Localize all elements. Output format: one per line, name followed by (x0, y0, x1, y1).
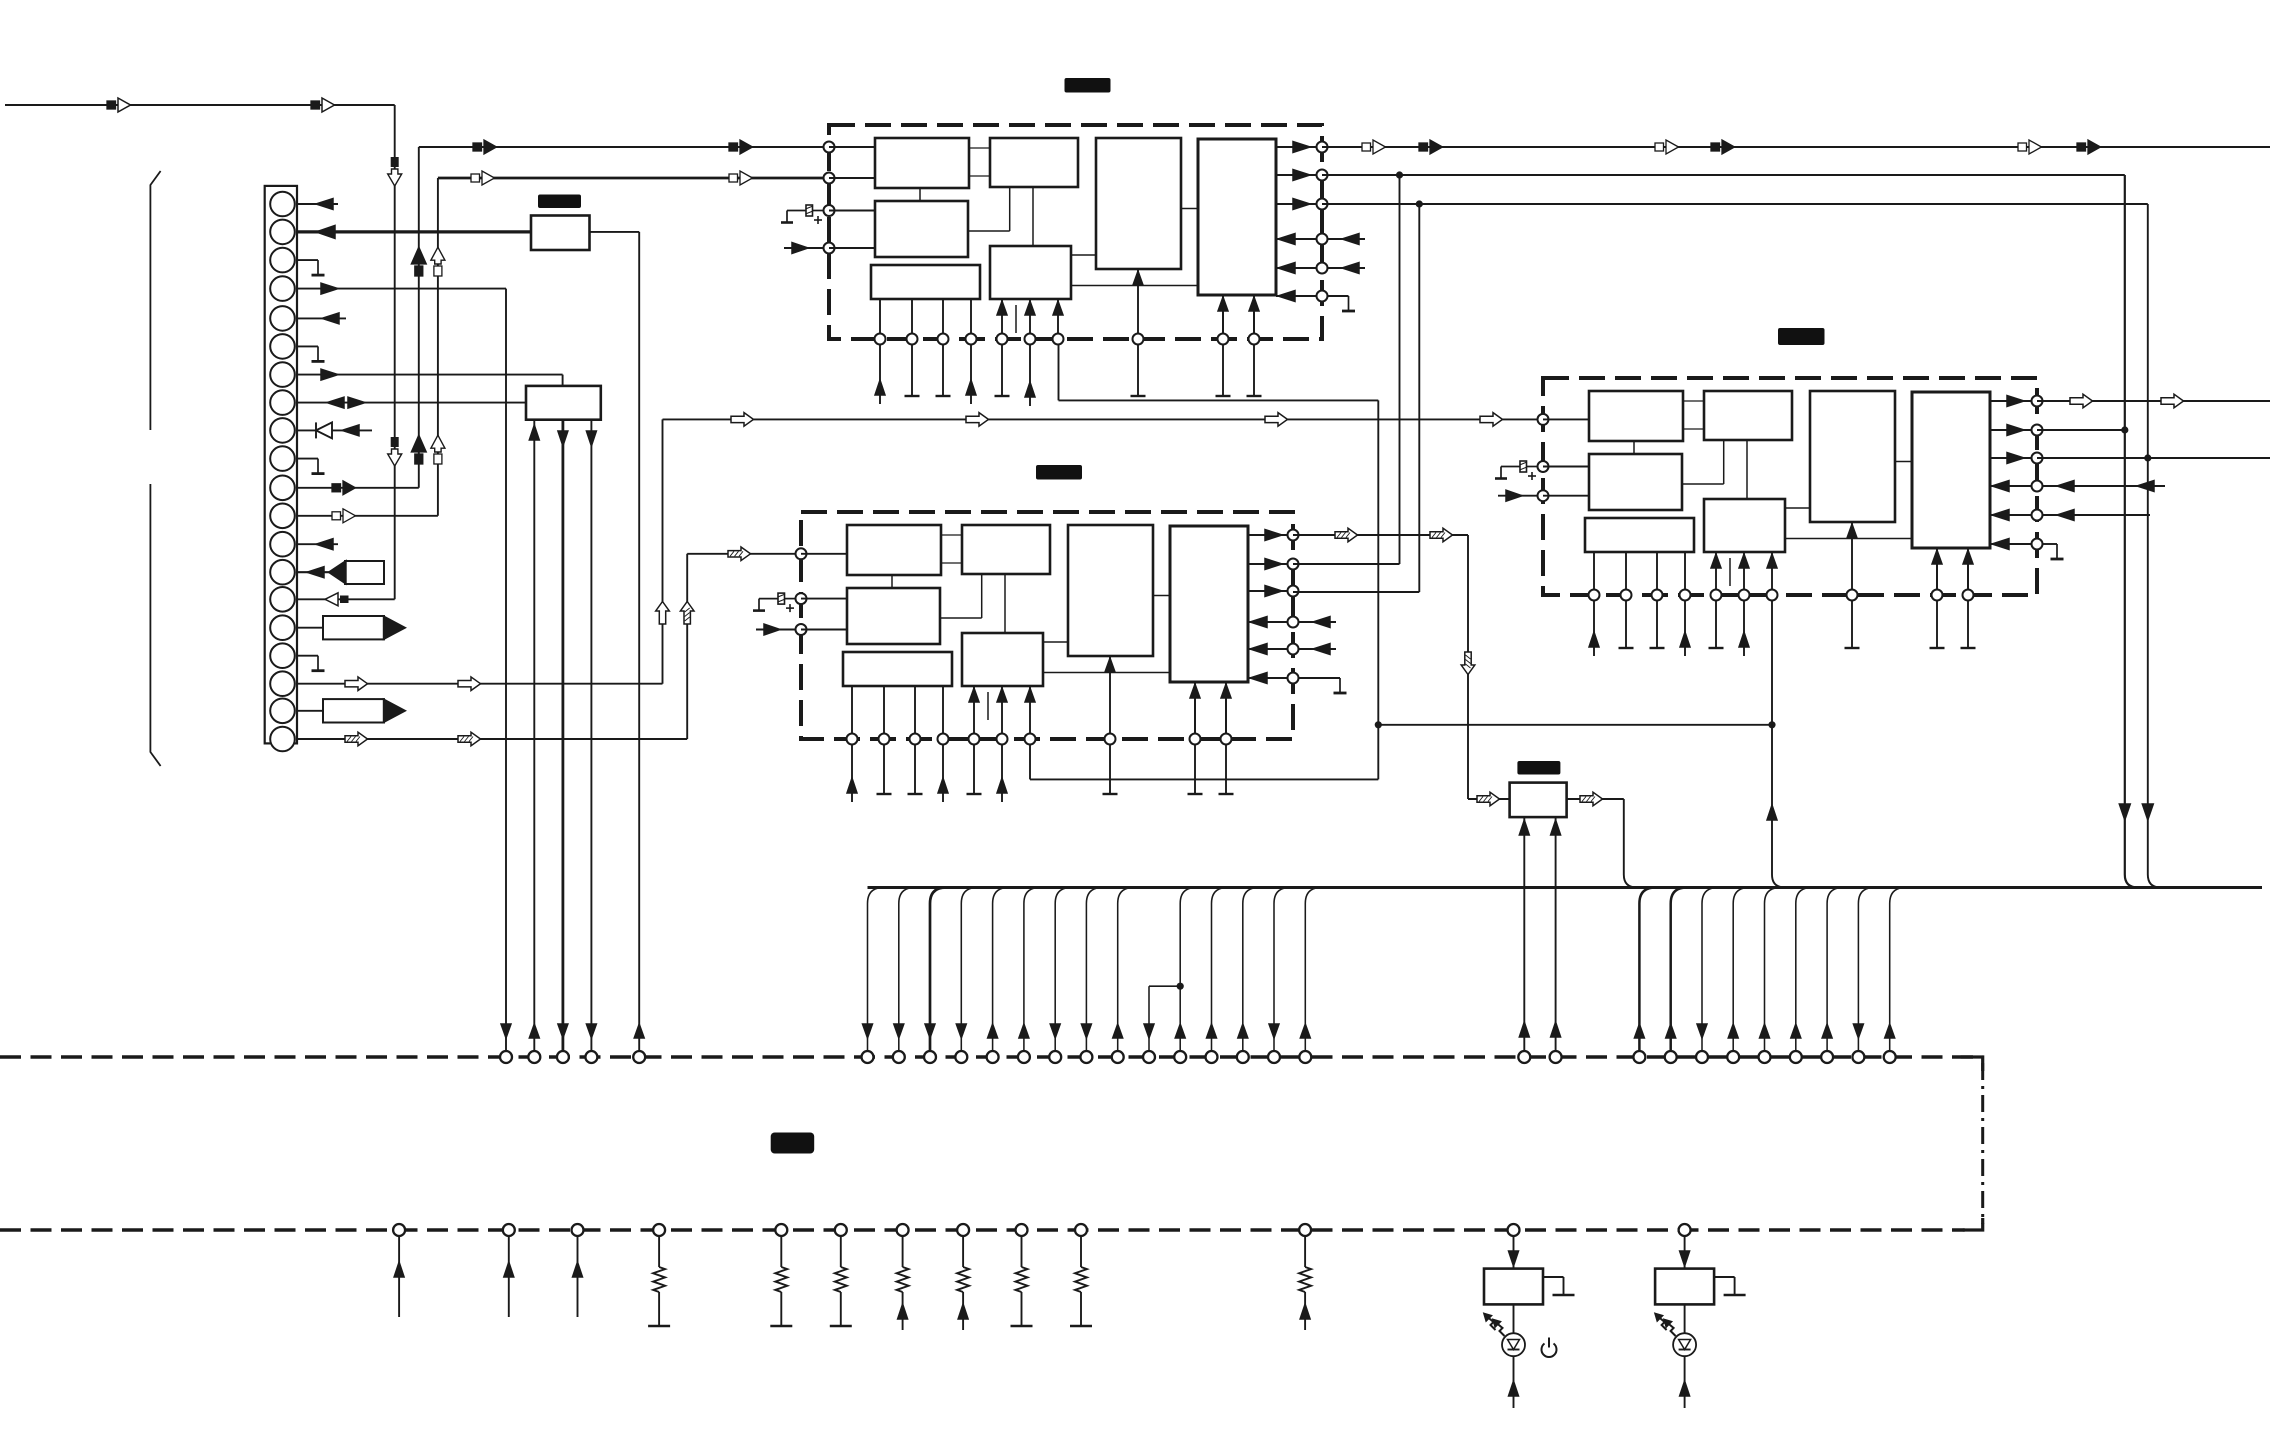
U2 bottom pin feeds (852, 656, 1231, 739)
U3 bottom stubs (1589, 600, 1976, 656)
U3 right pin circles and arrows (1990, 396, 2043, 550)
U3 label bar (1778, 328, 1825, 345)
U1 block A (input amp) (875, 138, 969, 188)
connector CN1 body (265, 186, 297, 744)
bus2 connector circles (393, 1224, 1691, 1236)
U1 block F (990, 246, 1071, 299)
pin14 display-out symbol (296, 561, 384, 585)
board bus2 dashed line (0, 1228, 1965, 1231)
U1 right pin circles and arrows (1276, 142, 1328, 302)
bus1 connector circles (500, 1051, 1896, 1063)
resistor R4 with feed arrow (897, 1235, 909, 1330)
U3 block G (regulator) (1585, 518, 1694, 552)
U1 decoupling capacitor and ground (813, 210, 824, 212)
wire W5 pin4 to bus1 (296, 283, 506, 1052)
wire W7 pin8 bidirectional to U6 (296, 397, 526, 408)
pin1 input arrow stub (296, 199, 338, 210)
junction dot T3 (2144, 454, 2151, 461)
LED D1 emission arrows (1484, 1313, 1505, 1336)
wire W8 pin18 to U3 input (296, 413, 1543, 691)
wire W4b U5 output down to bus1 (590, 232, 640, 1052)
U1 pin6 ground (1327, 296, 1355, 311)
IC U2 dashed package outline (801, 512, 1293, 739)
U1 block G (regulator) (871, 265, 980, 299)
U1 bottom pin feeds (880, 269, 1259, 339)
U3 pin6 ground (2042, 544, 2064, 559)
U2 pin6 ground (1298, 678, 1347, 693)
wire W3 pin12 to U1 input B (296, 171, 829, 523)
LED D2 emission arrows (1655, 1313, 1676, 1336)
U3 block D (output) (1912, 392, 1990, 548)
pin10 ground (296, 459, 325, 474)
U2 block A (input amp) (847, 525, 941, 575)
U1 block C (processor) (1096, 138, 1181, 269)
U3 internal wires (1634, 401, 1912, 586)
pin16 key-in symbol (296, 616, 406, 639)
U2 in4 stub (1298, 617, 1336, 628)
bus1 right corner to bus2 dash-dot link (1961, 1057, 1983, 1230)
board bus1 dashed line (0, 1055, 1983, 1058)
U1 block D (output) (1198, 139, 1276, 295)
wire U4 output to bundle (1567, 792, 1637, 887)
U2 label bar (1036, 465, 1082, 480)
U2 decoupling capacitor and ground (785, 598, 796, 600)
bundle drops to bus1 right cluster (1634, 888, 1905, 1052)
junction dot T2 (2121, 426, 2128, 433)
U3 in5 stub (2042, 510, 2150, 521)
wire T1 U3 out1 to right edge (2037, 394, 2270, 408)
wire W6 pin7 to U6 top (296, 369, 563, 386)
wire W9 pin20 to U2 input (296, 547, 801, 746)
power standby icon (1542, 1338, 1557, 1358)
U3 bottom pin circles (1589, 590, 1974, 601)
wire R2a drop to U2 pin2 (1293, 175, 1400, 564)
U2 left pins (756, 548, 846, 635)
U1 bottom pin circles (875, 334, 1260, 345)
connector CN1 pin circles (270, 192, 295, 752)
U3 bottom pin feeds (1594, 522, 1973, 595)
resistor R7 to ground (1070, 1235, 1092, 1326)
junction dot R2 to U2 pin2 (1396, 171, 1403, 178)
U3 left pins (1498, 414, 1588, 501)
IC U3 dashed package outline (1543, 378, 2037, 595)
wire T2 U3 out2 to vertical (2037, 429, 2125, 431)
pin15 off-page arrow symbol (325, 593, 349, 606)
U2 in5 stub (1298, 644, 1336, 655)
U1 in4 stub (1327, 234, 1365, 245)
wire W4 pin2 bold line to U5 (296, 225, 531, 238)
junction dot bundle drop branch (1177, 983, 1184, 990)
IC U4 label bar (1517, 761, 1560, 775)
resistor R8 with feed arrow (1299, 1235, 1311, 1330)
U2 internal wires (892, 535, 1170, 720)
wire R3 U1 out3 to right drop (1322, 204, 2161, 888)
U3 block B (1704, 391, 1792, 440)
U2 bottom pin circles (847, 734, 1232, 745)
U2 block D (output) (1170, 526, 1248, 682)
resistor R5 with feed arrow (957, 1235, 969, 1330)
U2 block B (962, 525, 1050, 574)
U1 label bar (1065, 78, 1111, 93)
wire W1 top feed line (5, 98, 402, 599)
junction dot bias line right (1768, 721, 1775, 728)
wire U3 bottom pin long drop to bundle (1767, 600, 1785, 888)
pin6 ground (296, 346, 325, 361)
wire R2 U1 out2 to right drop (1322, 175, 2138, 888)
IC U5 label bar (538, 195, 581, 209)
U3 block C (processor) (1810, 391, 1895, 522)
U1 block E (875, 201, 968, 257)
resistor R1 to ground (648, 1235, 670, 1326)
IC U6 box (526, 386, 601, 420)
U3 decoupling capacitor and ground (1527, 466, 1538, 468)
U3 block E (1589, 454, 1682, 510)
pin5 input arrow stub (296, 313, 346, 324)
U4 bottom feeds from bus1 (1519, 817, 1560, 1052)
U3 block F (1704, 499, 1785, 552)
pin13 input arrow stub (296, 539, 338, 550)
U2 block C (processor) (1068, 525, 1153, 656)
wire R3a drop to U2 pin3 (1293, 204, 1419, 592)
wire T3 U3 out3 to right edge (2037, 457, 2270, 459)
U1 in5 stub (1327, 263, 1365, 274)
U1 block B (990, 138, 1078, 187)
junction dot R3 to U2 pin3 (1416, 200, 1423, 207)
U2 right pin circles and arrows (1248, 530, 1299, 684)
LED D1 LED (1502, 1304, 1525, 1408)
U3 block A (input amp) (1589, 391, 1683, 441)
wire U1 pin to U2 bypass net (1030, 344, 1378, 779)
U3 in4 stub (2042, 481, 2165, 492)
U1 left pins (784, 142, 875, 254)
U1 internal wires (920, 148, 1198, 333)
U2 bottom stubs (847, 744, 1234, 802)
cable bracket lower half (150, 484, 160, 766)
U2 block F (962, 633, 1043, 686)
LED D2 LED (1673, 1304, 1696, 1408)
LED D2 ground (1714, 1277, 1746, 1295)
bus1 left cluster arrows (501, 1024, 644, 1038)
IC U1 dashed package outline (829, 125, 1322, 339)
U2 block G (regulator) (843, 652, 952, 686)
resistor R6 to ground (1011, 1235, 1033, 1326)
harness bundle line (868, 886, 2263, 889)
pin19 key-in symbol (296, 699, 406, 722)
resistor R3 to ground (830, 1235, 852, 1326)
LED D1 ground (1543, 1277, 1575, 1295)
pin9 diode and arrow (296, 422, 372, 438)
LED D1 driver box (1484, 1235, 1543, 1304)
wire S1 U2 out1 to U4 input (1293, 528, 1510, 806)
resistor R2 to ground (770, 1235, 792, 1326)
pin3 ground (296, 260, 325, 275)
bus2 supply stubs with arrows (394, 1235, 582, 1317)
bundle drops to bus1 left cluster (863, 888, 1322, 1052)
wire R1 U1 out1 long line to right edge (1322, 140, 2270, 154)
IC U4 box (1510, 783, 1567, 818)
junction dot U1 bypass to bias line (1375, 721, 1382, 728)
IC U5 box (531, 216, 590, 251)
U1 bottom stubs (875, 344, 1262, 406)
wire W2 pin11 to U1 input A (296, 140, 829, 495)
U2 block E (847, 588, 940, 644)
bus label bar (771, 1133, 815, 1154)
bias line across to U3 drop (1378, 724, 1772, 726)
U6 bottom feeds to bus1 (529, 420, 596, 1052)
LED D2 driver box (1655, 1235, 1714, 1304)
cable bracket (left brace) (150, 171, 160, 430)
pin17 ground (296, 656, 325, 671)
